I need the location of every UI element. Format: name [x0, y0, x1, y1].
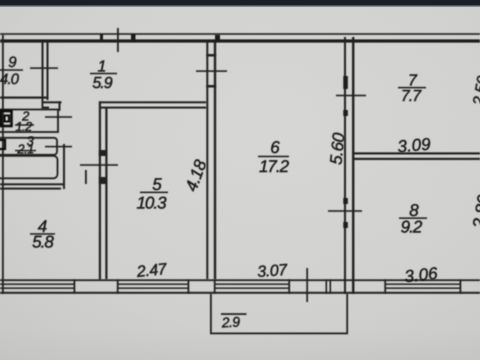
outer top wall thick line	[0, 39, 480, 42]
door jamb fill wall 4|5 lower	[99, 177, 108, 184]
bath fixture room 2	[1, 111, 12, 126]
svg-text:9.2: 9.2	[401, 218, 423, 237]
svg-text:10.3: 10.3	[136, 194, 167, 213]
wall between rooms 7 and 8 lower line	[352, 158, 480, 160]
door jamb fill room 7 upper	[343, 76, 348, 89]
room 4 top wall lower line	[0, 188, 61, 190]
svg-text:2.9: 2.9	[220, 314, 240, 331]
svg-text:3.09: 3.09	[397, 135, 432, 157]
corridor wall connector down to room 2 box	[59, 101, 61, 111]
balcony door jamb lines	[326, 279, 328, 294]
room 9 label	[0, 54, 23, 88]
door jamb fill room 7 lower	[343, 110, 348, 116]
wall between room 6 and rooms 7/8 left line	[344, 37, 346, 294]
svg-text:2.1: 2.1	[16, 142, 34, 157]
balcony left edge	[210, 294, 212, 334]
corridor left wall jamb	[63, 144, 65, 189]
door tick room 3	[45, 146, 72, 148]
window 1 inner lines	[0, 283, 74, 285]
window 1 end cap	[74, 279, 76, 294]
room 7 label	[398, 73, 426, 106]
top dark video band	[0, 0, 480, 6]
balcony bottom edge	[210, 333, 348, 335]
corridor wall upper line left stub	[43, 101, 62, 103]
window 2 inner lines	[118, 283, 189, 285]
room 6 label	[258, 138, 290, 176]
room 8 label	[399, 201, 427, 237]
dash on top wall x133	[131, 34, 136, 42]
svg-text:3.07: 3.07	[257, 262, 289, 281]
door jamb fill room 8 lower	[343, 222, 348, 228]
bottom wall outer top line	[0, 279, 480, 281]
window 3 end caps	[214, 279, 216, 294]
door jamb line room 4	[85, 170, 87, 184]
dash on top wall x217	[215, 35, 220, 42]
svg-text:3.06: 3.06	[404, 264, 439, 286]
room 4 label	[30, 217, 55, 252]
room 5 label	[136, 175, 168, 213]
wall between room 6 and rooms 7/8 right line	[352, 37, 354, 294]
room 3 label	[15, 134, 36, 157]
window 2 end caps	[117, 279, 119, 294]
door tick room 8	[328, 210, 362, 212]
svg-text:2.47: 2.47	[135, 261, 169, 281]
room 5 top wall lower line	[99, 107, 206, 109]
door jamb fill wall 4|5 upper	[99, 150, 108, 156]
room 5 left wall inner	[105, 107, 107, 279]
bottom wall bottom line	[0, 292, 480, 294]
door tick wall V2	[196, 70, 227, 72]
left outer wall	[2, 35, 4, 294]
door jamb fill room 8 upper	[343, 198, 348, 204]
door jamb dash V2 upper	[206, 54, 216, 57]
svg-text:5.60: 5.60	[326, 131, 348, 165]
dash on top wall x101	[100, 35, 103, 42]
balcony right edge	[346, 294, 348, 334]
dimension tick x307	[306, 268, 308, 302]
room 5 top wall upper line	[99, 101, 206, 103]
wall 9|1 bottom hook	[42, 99, 44, 109]
balcony label 2.9	[220, 313, 246, 330]
toilet fixture room 3	[0, 140, 5, 149]
svg-text:4.0: 4.0	[0, 71, 20, 88]
wall between corridor/room5 and room 6 left line	[206, 41, 208, 279]
svg-text:7.7: 7.7	[401, 88, 422, 105]
room 3 box	[0, 138, 57, 155]
window 4 end caps	[384, 279, 386, 294]
svg-text:5.8: 5.8	[32, 233, 54, 252]
door tick room 7	[336, 95, 366, 97]
door tick wall 4|5	[80, 164, 118, 166]
room 2 box	[0, 110, 58, 133]
door jamb dash V2 lower	[206, 85, 216, 88]
wall between corridor/room5 and room 6 right line	[214, 41, 216, 279]
svg-text:1.2: 1.2	[15, 119, 33, 134]
room 9 bottom wall	[0, 97, 48, 99]
window 3 inner lines	[215, 283, 290, 285]
tick on top wall at x118	[117, 28, 119, 52]
room 4 top wall upper line	[0, 183, 65, 185]
door tick room 9 wall	[30, 67, 58, 69]
outer top wall thin line	[0, 33, 480, 35]
svg-text:17.2: 17.2	[259, 157, 290, 176]
wall between room 9 and room 1	[42, 41, 44, 100]
window 4 inner lines	[385, 283, 460, 285]
room 1 label	[90, 59, 117, 93]
wall between rooms 7 and 8 upper line	[352, 152, 480, 154]
door tick room 2	[45, 116, 72, 118]
closet box	[0, 156, 58, 179]
room 5 left wall outer	[99, 101, 101, 279]
svg-text:5.9: 5.9	[92, 75, 112, 92]
room 2 label	[15, 109, 34, 135]
